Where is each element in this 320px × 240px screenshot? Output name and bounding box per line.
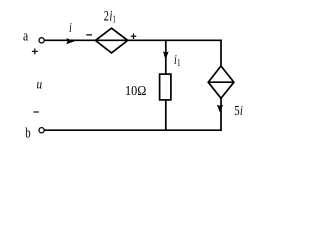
svg-text:u: u: [37, 77, 43, 92]
svg-text:i: i: [69, 21, 72, 36]
svg-text:1: 1: [113, 15, 116, 26]
svg-text:1: 1: [177, 58, 181, 69]
svg-text:a: a: [23, 29, 28, 45]
svg-text:i: i: [240, 104, 243, 119]
svg-text:2: 2: [104, 8, 109, 24]
svg-text:10Ω: 10Ω: [125, 84, 146, 99]
svg-text:5: 5: [234, 104, 239, 119]
svg-text:b: b: [25, 125, 30, 141]
